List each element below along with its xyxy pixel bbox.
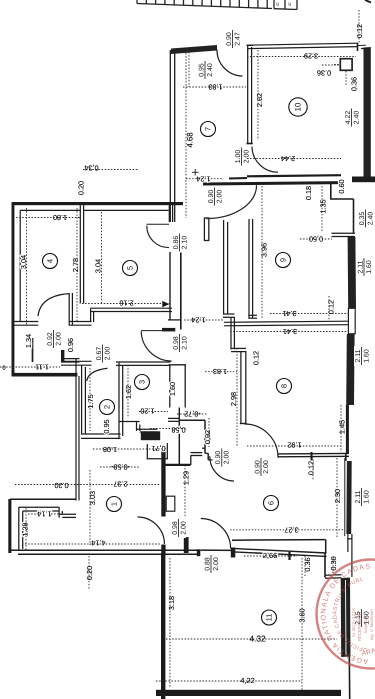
svg-text:2.11: 2.11 (355, 490, 362, 503)
dim 3.27 (inverted) (284, 525, 298, 534)
room number circle 7 (201, 122, 216, 137)
svg-text:0.18: 0.18 (304, 186, 313, 200)
dim 0.95 (102, 419, 111, 433)
dim line (dashed, horizontal) (186, 178, 222, 180)
label 0.67/2.00 (95, 344, 111, 364)
dim 2.30 (333, 489, 342, 503)
label 0.90/2.00 (207, 187, 223, 207)
dim 0.96 (66, 338, 75, 352)
label 0.98/2.00 (171, 518, 187, 538)
dim 2.98 (229, 392, 238, 406)
wall - room5 east upper (168, 204, 170, 222)
svg-text:4.22: 4.22 (345, 111, 352, 125)
svg-text:0.20: 0.20 (76, 181, 85, 195)
svg-text:0.98: 0.98 (172, 521, 179, 535)
dim line (dashed, horizontal) (93, 448, 168, 450)
dim 0,58 (inverted) (171, 426, 185, 435)
room number circle 9 (276, 253, 291, 268)
svg-text:4.68: 4.68 (185, 132, 194, 148)
wall - room7 west strip outer line (169, 50, 171, 222)
door arc 0.88 rooms6-11 (201, 519, 231, 549)
svg-text:0.98: 0.98 (173, 336, 180, 350)
dim line (dashed, vertical) (358, 10, 360, 44)
wall - room1 south (9, 549, 200, 551)
dim 0.36 (349, 77, 358, 91)
svg-text:0,92: 0,92 (203, 430, 212, 444)
tiny 0 marker left edge (2, 364, 6, 371)
svg-text:2.00: 2.00 (243, 150, 250, 164)
svg-text:2.98: 2.98 (229, 392, 238, 406)
dim line (dashed, vertical) (89, 368, 91, 431)
svg-text:2.00: 2.00 (216, 190, 223, 204)
svg-text:1.35: 1.35 (318, 199, 327, 213)
door tick room11 north (288, 552, 290, 560)
svg-text:0.36: 0.36 (303, 557, 312, 571)
room number circle 1 (107, 497, 122, 512)
dim line (dashed, vertical) (76, 208, 78, 322)
window 2.11/1.60 room8 east band (346, 334, 354, 405)
dim 3.18 (167, 596, 176, 610)
room number circle 10 (289, 98, 307, 116)
door frame room4 (68, 293, 70, 326)
dim 1.34 (24, 334, 33, 348)
wall - room1 west double (75, 358, 77, 501)
pier gap rect rooms 9/8 (348, 308, 355, 334)
wall - jog below room10 (0.60) (330, 184, 332, 200)
dim 1.35 (318, 199, 327, 213)
dim 0.12 (306, 461, 315, 475)
dim 1.08 (inverted) (103, 445, 117, 454)
svg-text:1.28: 1.28 (20, 522, 29, 536)
label 0.92/2.00 (46, 329, 62, 349)
svg-text:1.45: 1.45 (337, 420, 346, 434)
dim -0.58- (inverted) (110, 463, 130, 472)
window 2.11/1.60 room6 east band (346, 461, 351, 534)
window sill cap room9 top (332, 232, 356, 234)
dim line (dashed, vertical) (89, 470, 91, 545)
door ellipse arc room9 entry (207, 185, 257, 218)
door arc 0.67 room2 (87, 368, 108, 381)
wall - room8 west x230-234 (230, 317, 232, 350)
dim line (dashed, horizontal) (184, 319, 223, 321)
svg-text:8: 8 (280, 384, 289, 388)
staircase treads (top edge, cut off) (136, 0, 138, 4)
label 4.22/2.40 (344, 108, 360, 128)
svg-text:3: 3 (138, 380, 147, 384)
door arc 0.98/2.10 vestibule (141, 331, 172, 361)
dim line (dashed, vertical) (257, 50, 259, 140)
room number circle 11 (262, 610, 277, 625)
dim 0.60 (337, 179, 346, 193)
svg-text:6: 6 (267, 501, 276, 505)
svg-text:3.96: 3.96 (259, 243, 268, 257)
door arc 0.90 corridor-room6 (210, 456, 234, 481)
svg-text:0.12: 0.12 (326, 300, 335, 314)
dim line (dashed, horizontal) (156, 680, 302, 682)
label 0.95/2.40 (198, 60, 214, 80)
svg-text:2.00: 2.00 (224, 451, 231, 465)
wall - step room5 sw (90, 309, 92, 322)
dim 2.37 (inverted) (113, 480, 127, 489)
dim line (dashed, horizontal) (334, 64, 340, 66)
wall - room8 east lower (346, 405, 349, 453)
wall - left outer (12, 202, 15, 376)
wall - room2 west (81, 365, 83, 434)
door leaf 0.98/2.10 vestibule (141, 330, 171, 332)
wall - vestibule bottom y374 (12, 373, 77, 377)
wall - room2 north (61, 360, 92, 362)
svg-text:10: 10 (294, 102, 303, 111)
svg-text:0.90: 0.90 (215, 451, 222, 465)
dim line (dashed, horizontal) (100, 466, 140, 468)
dim 0.20 (85, 566, 94, 580)
wall - strip corner to room6 (178, 408, 180, 421)
wall - notch outline room1 (18, 507, 20, 551)
svg-text:1.29: 1.29 (181, 471, 190, 485)
dim line (dashed, vertical) (301, 558, 303, 690)
dim 3.60 (297, 608, 306, 622)
dim 1.14 (inverted) (37, 510, 51, 519)
svg-text:1.60: 1.60 (366, 260, 373, 274)
dim 1.29 (181, 471, 190, 485)
svg-text:0,58: 0,58 (171, 426, 185, 435)
dim line (dashed, vertical) (345, 71, 347, 85)
label 2.15/1.60 (354, 608, 370, 628)
dim 1.80 (inverted) (53, 213, 67, 222)
door arc 0.90 room8 (245, 424, 279, 458)
label 0.90/2.47 (225, 29, 241, 49)
dim line (dashed, horizontal) (166, 638, 337, 640)
wall - room6 south (232, 539, 326, 542)
label 2.11/1.60 (354, 487, 370, 507)
dim 1.45 (337, 420, 346, 434)
dim -0,72 (inverted) (184, 410, 201, 419)
svg-text:0.92: 0.92 (47, 332, 54, 346)
svg-text:2.40: 2.40 (367, 212, 374, 226)
svg-text:0.90: 0.90 (226, 32, 233, 46)
dim line (dashed, horizontal) (177, 413, 208, 415)
wall - lintel over room11 door (200, 549, 232, 551)
dim 0,34 (inverted) (84, 164, 98, 173)
window 4.22/2.40 room10 east band (364, 47, 371, 182)
dim 3.04 (93, 259, 102, 273)
dim 3.04 (19, 255, 28, 269)
svg-text:2.10: 2.10 (181, 236, 188, 250)
svg-text:2.00: 2.00 (213, 557, 220, 571)
svg-text:6: 6 (276, 1, 279, 7)
room number circle 5 (123, 261, 138, 276)
room number circle 6 (264, 496, 279, 511)
svg-text:2.40: 2.40 (353, 111, 360, 125)
dim 3.29 (inverted) (304, 52, 318, 61)
svg-text:Nr 3417 / 12.04: Nr 3417 / 12.04 (351, 607, 356, 637)
door arc 0.92 room4 (38, 294, 69, 316)
svg-text:2: 2 (103, 405, 112, 409)
door leaf 0.86 room5 (147, 223, 170, 225)
shaft square 0.36 (340, 59, 352, 71)
dim line (dashed, horizontal) (244, 555, 297, 557)
svg-text:0.12: 0.12 (251, 351, 260, 365)
svg-text:RECEPTIONAT: RECEPTIONAT (357, 611, 362, 641)
dim 0,71 (inverted) (151, 444, 165, 453)
dim line (dashed, vertical) (88, 556, 90, 590)
room number circle 4 (43, 254, 58, 269)
svg-text:0.88: 0.88 (204, 557, 211, 571)
wall - corridor east x223-228 (223, 220, 225, 314)
wall - rooms2/3 divider (118, 362, 120, 438)
wall - room4 south stub (69, 321, 92, 323)
dim 1.20 (inverted) (140, 407, 154, 416)
window 0.95/2.40 room7 top band (171, 45, 217, 54)
dim line (dashed, horizontal) (300, 238, 332, 240)
wall - connector room6/room1 (165, 464, 190, 466)
dim line (dashed, horizontal) (0, 366, 60, 368)
window 2.11/1.60 room9 east band (348, 237, 356, 308)
wall - room6 east corner to room11 (347, 534, 349, 552)
label 0.98/2.10 (172, 333, 188, 353)
svg-text:2.00: 2.00 (104, 347, 111, 361)
svg-text:0.95: 0.95 (102, 419, 111, 433)
dim 0,50 (inverted) (309, 235, 323, 244)
svg-text:0.35: 0.35 (359, 212, 366, 226)
svg-text:2.10: 2.10 (181, 336, 188, 350)
svg-text:2.11: 2.11 (355, 349, 362, 362)
wall - room6 west (178, 420, 180, 466)
door arc 0.98 room1 (138, 517, 165, 544)
svg-text:2.00: 2.00 (55, 332, 62, 346)
svg-text:2.40: 2.40 (207, 63, 214, 77)
wall - room9 west (248, 219, 250, 318)
svg-text:6: 6 (288, 1, 291, 7)
svg-text:0.36: 0.36 (317, 69, 331, 78)
svg-text:0.60: 0.60 (337, 179, 346, 193)
dim line (dashed, horizontal) (22, 543, 160, 545)
svg-text:3.03: 3.03 (88, 491, 97, 505)
svg-text:2.47: 2.47 (234, 32, 241, 46)
dim line (dashed, horizontal) (247, 445, 341, 447)
dim 2,66 (263, 551, 277, 560)
wall - vestibule vertical b (61, 350, 64, 362)
dim line (dashed, horizontal) (15, 484, 160, 486)
dim line (dashed, vertical) (127, 365, 129, 418)
dim line (dashed, horizontal) (83, 169, 139, 171)
wall - room10 bottom right band (352, 177, 375, 183)
dim 0.12 (251, 351, 260, 365)
wall - room4/5 top (outer+inner) (12, 202, 184, 205)
window 2.15/1.60 room11 east band (341, 578, 351, 658)
svg-text:1.00: 1.00 (235, 150, 242, 164)
dim 1.83 (inverted) (208, 83, 222, 92)
dim line (dashed, vertical) (236, 348, 238, 446)
dim 0.18 (304, 186, 313, 200)
wall - vestibule vertical a (32, 338, 34, 362)
wall - room5 south (90, 307, 172, 309)
svg-text:2.11: 2.11 (357, 260, 364, 273)
dim 1.75 (86, 394, 95, 408)
dim 4.32 (249, 634, 266, 644)
wall - rooms4/5 divider (79, 205, 81, 304)
svg-text:1.08: 1.08 (103, 445, 117, 454)
dim 0.36 (303, 557, 312, 571)
wall - room1 east lower bit (161, 545, 165, 555)
chimney U room1 (146, 444, 148, 460)
svg-text:Inspector: Inspector (363, 615, 368, 633)
svg-text:9: 9 (279, 258, 288, 262)
label 2.11/1.60 (354, 346, 370, 366)
wall - room1 north (from room2) (81, 433, 121, 435)
dim line (dashed, vertical) (304, 556, 306, 576)
svg-text:1.34: 1.34 (24, 334, 33, 348)
svg-text:ing. V. Moldovan: ing. V. Moldovan (369, 609, 374, 640)
dim 1.28 (20, 522, 29, 536)
dim 1.83 (inverted) (213, 367, 227, 376)
dim 2.44 (inverted) (281, 154, 295, 163)
dim line (dashed, horizontal) (183, 86, 246, 88)
label 1.00/2.00 (234, 147, 250, 167)
svg-text:1.92: 1.92 (287, 441, 301, 450)
svg-text:2.00: 2.00 (263, 460, 270, 474)
svg-text:0.86: 0.86 (173, 236, 180, 250)
wall - room3 bottom steps (119, 421, 140, 423)
svg-text:1: 1 (110, 502, 119, 506)
room number circle 8 (277, 379, 292, 394)
svg-text:4.14: 4.14 (91, 539, 105, 548)
dim line (dashed, vertical) (332, 556, 334, 575)
svg-text:0,34: 0,34 (84, 164, 98, 173)
wall - room10 west partition (247, 45, 249, 144)
dim line (dashed, vertical) (185, 53, 187, 218)
dim 1.24 (inverted) (191, 316, 205, 325)
dim line (dashed, horizontal) (139, 411, 168, 413)
wall - room9 north main (203, 183, 341, 184)
dim line (dashed, horizontal) (247, 158, 341, 160)
dim line (dashed, vertical) (101, 212, 103, 305)
dim line (dashed, vertical) (208, 418, 210, 447)
wall - corridor east single line (204, 420, 206, 453)
dim 4.68 (185, 132, 194, 148)
dim 1.11 (inverted) (35, 363, 49, 372)
dim line (dashed, vertical) (328, 296, 330, 320)
dim 1.92 (inverted) (287, 441, 301, 450)
svg-text:0.36: 0.36 (349, 77, 358, 91)
dim line (dashed, vertical) (184, 465, 186, 516)
dim line (dashed, vertical) (312, 453, 314, 480)
wall - vestibule horiz y360 (61, 358, 79, 360)
svg-text:5: 5 (126, 266, 135, 270)
dim line (dashed, horizontal) (230, 529, 345, 531)
pillar by room1 door (166, 496, 175, 511)
svg-text:1.60: 1.60 (168, 382, 177, 396)
wall - room9 south / room8 north (224, 321, 348, 322)
dim line 1.14 dashes (28, 513, 38, 515)
wall - room1 nw outer (10, 498, 77, 500)
dim 0.12 (326, 300, 335, 314)
dim 3.03 (88, 491, 97, 505)
label 0.86/2.10 (172, 233, 188, 253)
shaft pillar outline by room3 (169, 365, 171, 408)
dim line (dashed, horizontal) (270, 313, 348, 315)
svg-text:0.12: 0.12 (306, 461, 315, 475)
label 2.11/1.60 (357, 257, 373, 277)
dim 4.14 (inverted) (91, 539, 105, 548)
svg-text:4: 4 (46, 259, 55, 263)
dim line (dashed, vertical) (188, 52, 190, 87)
dim line (dashed, horizontal) (150, 428, 186, 430)
dim line (dashed, vertical) (26, 208, 28, 326)
room number circle 2 (100, 400, 115, 415)
dim line (dashed, horizontal) (205, 371, 237, 373)
wall - room11 ne step (324, 553, 326, 578)
dim line (dashed, horizontal) (16, 217, 80, 219)
dim line (dashed, vertical) (340, 405, 342, 452)
label 0.90/2.00 (214, 448, 230, 468)
dim 2.16 (inverted) (119, 298, 133, 307)
wall - room11 north (232, 548, 327, 553)
dim arrow 2.16 (162, 301, 169, 307)
svg-text:1.14: 1.14 (37, 510, 51, 519)
dim 2.62 (255, 93, 264, 107)
door arc 0.90/2.47 room7 top (217, 50, 243, 77)
red cadastral stamp (cut at right edge) (0, 560, 375, 699)
door arc 0.86 room5 (147, 226, 169, 248)
dim line (dashed, vertical) (169, 558, 171, 688)
dim line (dashed, horizontal) (247, 56, 356, 58)
wall - room7 west strip inner line (174, 52, 176, 222)
wall - divider rooms 6/8 (240, 351, 242, 424)
dim 0,92 (203, 430, 212, 444)
dim line (dashed, horizontal) (230, 331, 348, 333)
label 0.90/2.00 (254, 457, 270, 477)
dim line (dashed, horizontal) (322, 64, 340, 66)
dim 3.96 (259, 243, 268, 257)
wall - room3 north (116, 361, 171, 363)
wall - room8 south (278, 452, 349, 455)
wall - jog y313 (223, 313, 235, 315)
dim 0.20 (inverted) (54, 481, 68, 490)
dim 1.60 (168, 382, 177, 396)
svg-text:1.60: 1.60 (363, 490, 370, 504)
svg-text:2,66: 2,66 (263, 551, 277, 560)
svg-text:0.95: 0.95 (198, 63, 205, 77)
wall - jog y349 (0.12) (231, 347, 246, 349)
dim line (dashed, vertical) (336, 458, 338, 538)
dim 0.12 (355, 24, 364, 38)
wall - room6 east upper (345, 453, 347, 461)
wall - room11 south (156, 690, 341, 696)
svg-text:2.78: 2.78 (71, 258, 80, 272)
dim 3.41 (inverted) (283, 327, 297, 336)
dim 1.24 (inverted) (196, 175, 210, 184)
svg-text:0.96: 0.96 (66, 338, 75, 352)
label 0.88/2.00 (204, 554, 220, 574)
door leaf rect room9 (204, 218, 208, 241)
svg-text:2.16: 2.16 (119, 298, 133, 307)
svg-text:0.67: 0.67 (96, 347, 103, 361)
wall block room1 north (141, 431, 160, 440)
dim 4,22 (240, 676, 254, 685)
svg-text:7: 7 (204, 127, 213, 131)
dim 0.20 (76, 181, 85, 195)
dim 2.78 (71, 258, 80, 272)
wall - room1 east (161, 446, 165, 517)
svg-text:2.62: 2.62 (255, 93, 264, 107)
svg-text:0.90: 0.90 (208, 190, 215, 204)
svg-text:0.20: 0.20 (54, 481, 68, 490)
label 0.35/2.40 (358, 209, 374, 229)
wall - room1 left outer (8, 499, 11, 553)
dim 1.62 (124, 385, 133, 399)
door arc 1.00/2.00 room10 (252, 147, 278, 173)
